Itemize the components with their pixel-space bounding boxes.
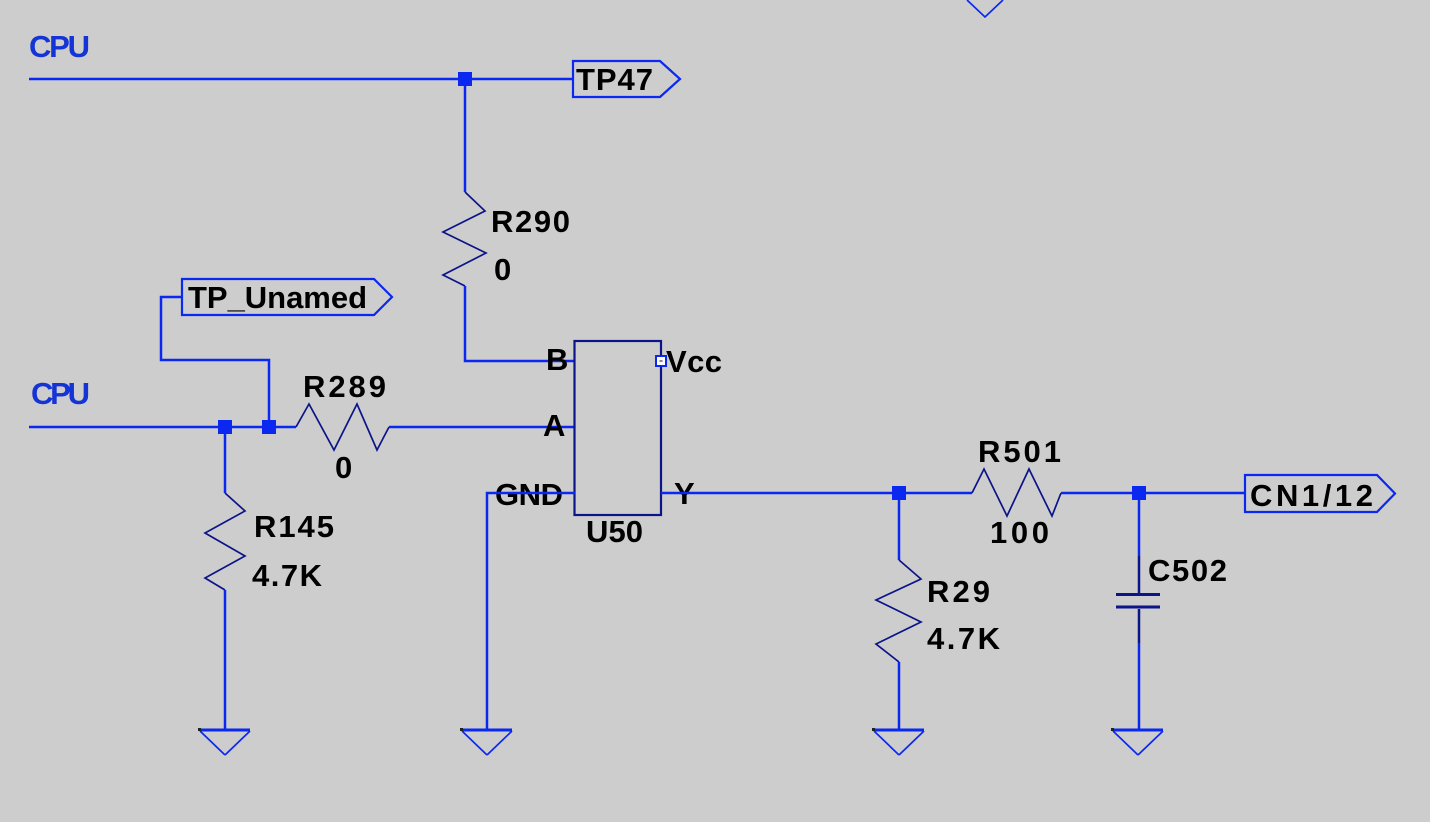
svg-text:R501: R501 (978, 434, 1061, 469)
ground (R145) (198, 728, 250, 755)
svg-text:CPU: CPU (31, 376, 90, 411)
R501 value 100 (990, 515, 1049, 550)
net label CPU (top) (29, 29, 90, 64)
wire junction to R290 top (464, 79, 467, 192)
svg-text:R289: R289 (303, 369, 386, 404)
svg-text:R145: R145 (254, 509, 334, 544)
resistor R290 (443, 192, 570, 286)
pin Y label (674, 476, 695, 511)
svg-text:U50: U50 (586, 514, 643, 549)
pin Vcc unconnected square (656, 356, 666, 366)
pin A label (543, 408, 565, 443)
off-page connector CN1/12 (1245, 475, 1395, 513)
svg-text:C502: C502 (1148, 553, 1227, 588)
ground (C502) (1111, 728, 1163, 755)
wire R29 branch vertical (898, 493, 901, 560)
wire CPU bottom horizontal (29, 426, 296, 429)
resistor R289 (296, 369, 389, 450)
wire CPU top horizontal (29, 78, 573, 81)
svg-text:4.7K: 4.7K (252, 558, 323, 593)
wire R145 to ground (224, 590, 227, 730)
junction at C502 branch (1132, 486, 1146, 500)
wire GND pin to ground (487, 493, 575, 730)
wire TP_Unamed to CPU net (161, 297, 269, 427)
IC U50 (575, 341, 662, 549)
junction at R145 branch (218, 420, 232, 434)
svg-text:0: 0 (335, 450, 352, 485)
net label CPU (bottom) (31, 376, 90, 411)
svg-text:B: B (546, 342, 568, 377)
wire R145 branch vertical (224, 427, 227, 493)
svg-text:R290: R290 (491, 204, 570, 239)
wire R290 bottom to pin B (465, 286, 575, 361)
R289 value 0 (335, 450, 352, 485)
svg-text:TP_Unamed: TP_Unamed (188, 280, 367, 315)
svg-text:100: 100 (990, 515, 1049, 550)
junction at TP47 branch (458, 72, 472, 86)
svg-text:Vcc: Vcc (666, 344, 722, 379)
R29 value 4.7K (927, 621, 1001, 656)
resistor R29 (876, 560, 990, 662)
wire R29 to ground (898, 662, 901, 730)
ground (R29) (872, 728, 924, 755)
svg-text:GND: GND (495, 477, 563, 512)
R145 value 4.7K (252, 558, 323, 593)
resistor R501 (972, 434, 1061, 516)
svg-text:CPU: CPU (29, 29, 90, 64)
junction at TP_Unamed branch (262, 420, 276, 434)
wire C502 to ground (1138, 643, 1141, 730)
svg-text:TP47: TP47 (576, 62, 653, 97)
resistor R145 (205, 493, 334, 590)
wire Y output to R501 (661, 492, 972, 495)
test point flag TP_Unamed (182, 279, 392, 315)
pin GND label (495, 477, 563, 512)
svg-text:0: 0 (494, 252, 511, 287)
capacitor C502 (1116, 553, 1227, 643)
svg-text:R29: R29 (927, 574, 990, 609)
pin Vcc label (666, 344, 722, 379)
wire R501 to CN1/12 (1061, 492, 1245, 495)
svg-text:4.7K: 4.7K (927, 621, 1001, 656)
wire R289 to pin A (389, 426, 575, 429)
ground (partial, top edge) (967, 0, 1003, 17)
wire C502 branch vertical (1138, 493, 1141, 556)
svg-text:A: A (543, 408, 565, 443)
ground (U50 GND) (460, 728, 512, 755)
pin B label (546, 342, 568, 377)
test point flag TP47 (573, 61, 680, 97)
R290 value 0 (494, 252, 511, 287)
junction at R29 branch (892, 486, 906, 500)
